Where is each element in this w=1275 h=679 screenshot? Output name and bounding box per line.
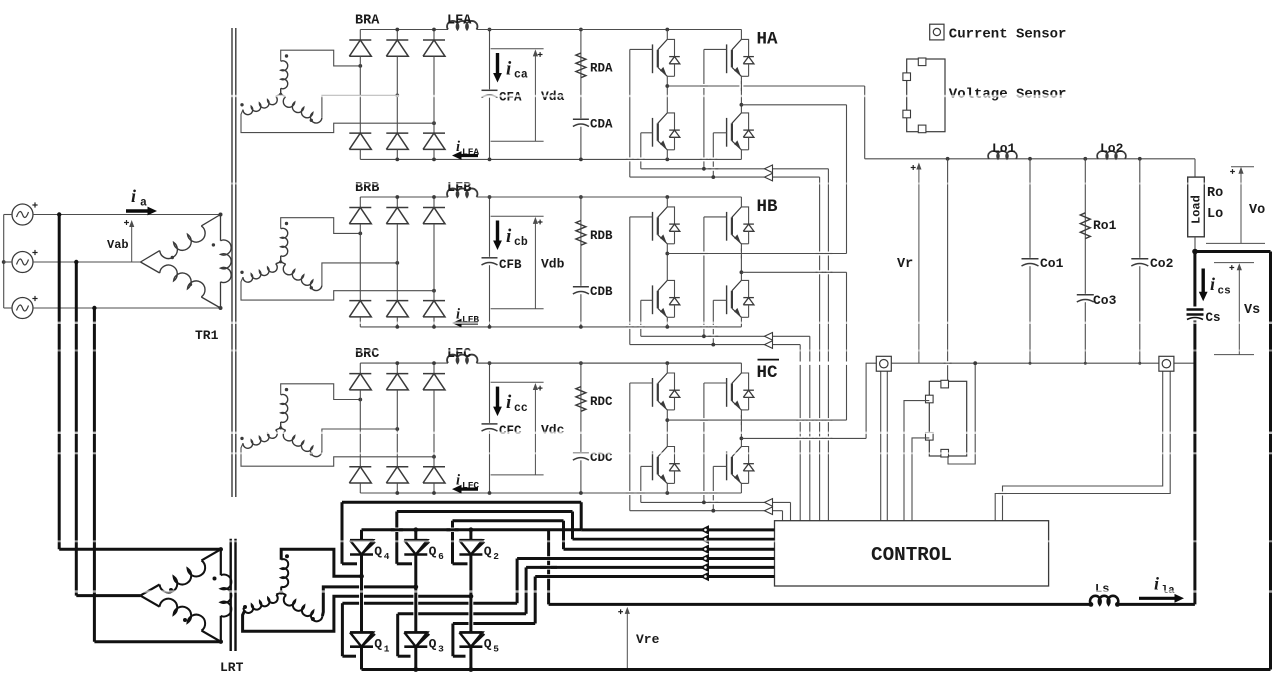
svg-text:BRC: BRC (355, 347, 379, 362)
svg-text:Q: Q (374, 544, 382, 559)
svg-text:LRT: LRT (220, 660, 244, 675)
svg-text:HA: HA (757, 30, 779, 50)
svg-text:Lo1: Lo1 (992, 141, 1016, 156)
svg-text:HB: HB (757, 197, 779, 217)
svg-text:Ro1: Ro1 (1093, 218, 1117, 233)
svg-text:Vdb: Vdb (541, 257, 565, 272)
svg-text:4: 4 (384, 551, 390, 562)
svg-text:Vs: Vs (1244, 303, 1260, 318)
svg-text:1: 1 (384, 643, 390, 654)
svg-text:Ro: Ro (1207, 186, 1223, 201)
svg-text:a: a (140, 197, 147, 210)
svg-text:RDC: RDC (590, 395, 613, 409)
svg-text:TR1: TR1 (195, 328, 219, 343)
svg-text:Vr: Vr (897, 257, 913, 272)
svg-text:Vo: Vo (1249, 203, 1265, 218)
svg-text:CFC: CFC (499, 424, 522, 438)
svg-text:5: 5 (493, 643, 499, 654)
svg-text:Load: Load (1190, 195, 1204, 224)
svg-text:6: 6 (438, 551, 444, 562)
svg-text:cs: cs (1218, 286, 1231, 298)
svg-text:Voltage Sensor: Voltage Sensor (949, 87, 1067, 103)
svg-text:cc: cc (514, 402, 528, 415)
svg-text:Lo2: Lo2 (1100, 141, 1124, 156)
svg-text:Co3: Co3 (1093, 293, 1117, 308)
svg-text:LFA: LFA (447, 14, 472, 29)
svg-text:i: i (506, 226, 512, 247)
svg-text:CONTROL: CONTROL (871, 544, 952, 566)
svg-text:Q: Q (374, 636, 382, 651)
svg-text:i: i (506, 392, 512, 413)
svg-text:HC: HC (757, 363, 779, 383)
svg-text:CFA: CFA (499, 91, 522, 105)
svg-text:Vre: Vre (636, 632, 660, 647)
svg-text:Q: Q (429, 636, 437, 651)
svg-text:BRA: BRA (355, 14, 380, 29)
svg-text:i: i (1210, 274, 1215, 294)
svg-text:LFC: LFC (447, 347, 471, 362)
svg-text:cb: cb (514, 236, 528, 249)
svg-text:i: i (131, 186, 136, 206)
svg-text:3: 3 (438, 643, 444, 654)
svg-text:CFB: CFB (499, 258, 522, 272)
svg-text:Ls: Ls (1095, 582, 1109, 596)
svg-text:Lo: Lo (1207, 207, 1223, 222)
svg-text:Co2: Co2 (1150, 256, 1174, 271)
svg-text:i: i (506, 59, 512, 80)
svg-text:2: 2 (493, 551, 499, 562)
svg-text:Q: Q (429, 544, 437, 559)
svg-text:Vdc: Vdc (541, 423, 565, 438)
svg-text:Current Sensor: Current Sensor (949, 27, 1067, 43)
svg-text:Q: Q (484, 636, 492, 651)
svg-text:Vab: Vab (107, 238, 129, 252)
svg-text:CDA: CDA (590, 118, 613, 132)
svg-text:CDB: CDB (590, 285, 613, 299)
svg-text:Q: Q (484, 544, 492, 559)
svg-text:RDB: RDB (590, 229, 613, 243)
svg-text:RDA: RDA (590, 62, 613, 76)
svg-text:Co1: Co1 (1040, 256, 1064, 271)
svg-text:ca: ca (514, 69, 528, 82)
